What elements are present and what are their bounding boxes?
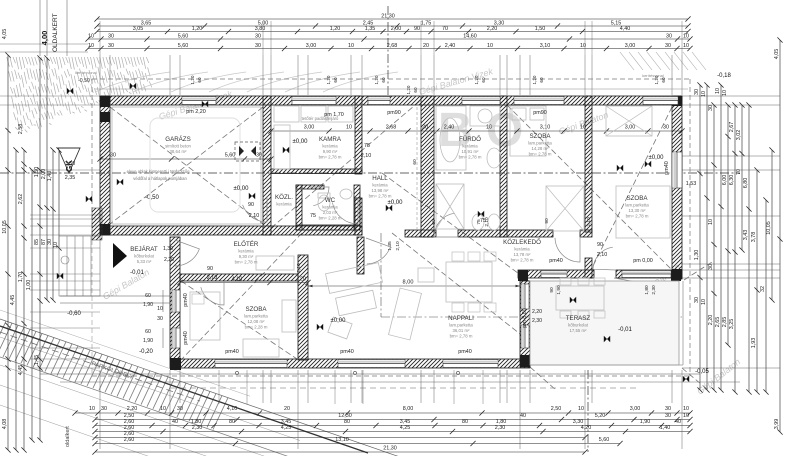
bejarat entry triangle [113,243,127,268]
level boundary axis [380,233,382,317]
svg-text:30: 30 [666,33,672,39]
svg-text:3,00: 3,00 [625,43,636,49]
svg-text:1,80: 1,80 [644,285,650,295]
svg-text:2,00: 2,00 [391,26,402,32]
right horizontal extension lines [682,95,780,97]
svg-text:2,10: 2,10 [249,213,260,219]
svg-text:10: 10 [722,90,728,96]
svg-text:4,25: 4,25 [281,425,292,431]
window terrace door 2 [521,325,529,348]
svg-text:±0,00: ±0,00 [388,200,404,206]
svg-text:10: 10 [160,406,166,412]
svg-text:4,05: 4,05 [2,29,8,40]
svg-text:10,05: 10,05 [2,220,8,234]
door szoba top [555,237,580,262]
svg-text:2,62: 2,62 [18,194,24,205]
svg-text:kerítésvonal: kerítésvonal [75,70,97,75]
roof diagonals szoba bottom-left [181,233,302,360]
svg-text:10: 10 [88,33,94,39]
svg-text:1,20: 1,20 [406,85,411,94]
svg-text:2,30: 2,30 [532,318,542,324]
svg-text:1,90: 1,90 [143,302,153,308]
door garage side [243,196,267,222]
svg-text:2,85: 2,85 [722,317,728,328]
ramp hatch at garage corner [92,208,102,240]
door szoba bl [201,281,224,305]
terrace corner diagonals [530,367,556,390]
svg-text:30: 30 [255,33,261,39]
window szoba right N [643,97,678,105]
svg-text:3,00: 3,00 [625,125,636,131]
svg-text:kőburkolat: kőburkolat [134,254,155,259]
svg-text:9,30 m²: 9,30 m² [239,254,254,259]
wall garage south / interior long [100,226,362,235]
svg-text:10: 10 [486,125,492,131]
svg-text:2,67: 2,67 [729,122,735,133]
svg-text:simított beton: simított beton [165,144,191,149]
svg-text:10: 10 [683,43,689,49]
svg-text:4,20: 4,20 [581,425,592,431]
svg-text:1,20: 1,20 [532,75,537,84]
svg-text:60: 60 [333,77,338,83]
window south nappali 2 [443,360,498,368]
svg-text:80: 80 [344,419,350,425]
svg-text:kerámia: kerámia [322,205,338,210]
svg-text:2,10: 2,10 [296,263,302,273]
wall szoba divider lower [585,258,592,278]
svg-text:lam.parketta: lam.parketta [528,141,552,146]
svg-text:ELŐTÉR: ELŐTÉR [234,241,259,248]
extension lines top [99,55,101,95]
svg-text:4,00: 4,00 [40,31,49,46]
svg-text:pm40: pm40 [458,349,472,355]
svg-text:30: 30 [708,264,714,270]
garage interior dim line [97,153,273,162]
svg-text:90: 90 [549,287,555,293]
wall corridor north w1 [405,230,436,237]
svg-text:-0,01: -0,01 [130,270,144,276]
svg-text:17,55 m²: 17,55 m² [570,328,588,333]
door bath [434,213,458,237]
wall exterior top [100,96,682,105]
svg-text:1,45: 1,45 [34,355,40,366]
svg-text:1,20: 1,20 [330,26,341,32]
svg-text:85: 85 [34,239,40,245]
svg-text:13,10: 13,10 [335,437,349,443]
svg-text:4,45: 4,45 [10,295,16,306]
svg-text:2,35: 2,35 [65,175,76,181]
porch slab lines [60,295,170,297]
svg-text:3,05: 3,05 [133,26,144,32]
svg-text:2,58: 2,58 [18,124,24,135]
svg-text:40: 40 [172,419,178,425]
svg-text:-0,50: -0,50 [78,78,90,84]
right dimension columns [694,37,783,434]
window south szoba [215,360,287,368]
svg-text:OLDALKERT: OLDALKERT [52,13,59,52]
svg-text:9,90 m²: 9,90 m² [323,149,338,154]
svg-text:kerámia: kerámia [462,144,478,149]
svg-text:oldalkert: oldalkert [65,426,71,447]
wall exterior bottom [170,359,530,368]
svg-text:bm= 2,78 m: bm= 2,78 m [319,155,342,160]
svg-text:3,00: 3,00 [304,125,315,131]
left dimension columns [2,29,62,453]
svg-text:6,00: 6,00 [722,175,728,186]
eave line above top wall [95,88,688,90]
svg-text:pm 8,00: pm 8,00 [522,308,528,327]
svg-text:5,20: 5,20 [595,413,606,419]
svg-text:30: 30 [108,43,114,49]
wall corridor north w2 [458,230,553,237]
svg-text:75: 75 [310,213,316,219]
svg-text:20: 20 [423,43,429,49]
svg-text:5,33 m²: 5,33 m² [137,259,152,264]
svg-text:bm= 2,78 m: bm= 2,78 m [626,214,649,219]
svg-text:1,20: 1,20 [190,75,195,84]
svg-text:2,20: 2,20 [708,315,714,326]
svg-text:80: 80 [462,419,468,425]
svg-text:10: 10 [683,413,689,419]
interior dim line across rooms [268,125,684,134]
wall wc east [354,185,360,230]
roof diagonal bath/szoba long [507,105,672,270]
svg-text:pm40: pm40 [340,349,354,355]
svg-text:lam.parketta: lam.parketta [449,323,473,328]
svg-text:90: 90 [544,218,550,224]
svg-text:40: 40 [520,413,526,419]
svg-text:5,60: 5,60 [599,437,610,443]
svg-text:8,00: 8,00 [403,280,414,286]
svg-text:4,40: 4,40 [620,26,631,32]
svg-text:eleve ablak kismeretti i Mgfa: eleve ablak kismeretti i Mgfa szűg [127,169,191,174]
wall szoba south east part [616,270,682,278]
svg-text:14,60: 14,60 [463,33,477,39]
svg-text:10: 10 [683,33,689,39]
garage attic hatch [235,142,260,161]
svg-text:SZOBA: SZOBA [530,133,552,140]
window east wall win [672,152,682,188]
window kamra N2 [368,97,390,105]
svg-text:2,20: 2,20 [532,309,542,315]
wall garage east [263,96,271,235]
svg-text:pm90: pm90 [533,110,547,116]
svg-text:kerámia: kerámia [372,183,388,188]
left horizontal extension lines [0,95,100,97]
wall exterior left lower [170,237,180,359]
svg-text:12,08 m²: 12,08 m² [248,319,266,324]
svg-text:kerámia: kerámia [514,247,530,252]
svg-text:1,30: 1,30 [163,246,173,252]
roof diagonal corridor long [382,173,545,293]
door wc [310,187,329,206]
wall corridor north stub [580,230,592,237]
svg-text:FÜRDŐ: FÜRDŐ [459,136,481,143]
svg-text:1,20: 1,20 [374,75,379,84]
door kamra [332,198,358,224]
wall wc north part [296,185,324,189]
terrace furniture [556,286,604,310]
furniture nappali sofa [326,263,422,340]
garage inner face line [112,107,261,224]
svg-text:60: 60 [197,77,202,83]
svg-text:60: 60 [539,77,544,83]
svg-text:60: 60 [413,87,418,93]
svg-text:30: 30 [665,43,671,49]
svg-text:lam.parketta: lam.parketta [244,314,268,319]
svg-text:pm40: pm40 [183,331,189,345]
svg-text:13,98 m²: 13,98 m² [372,188,390,193]
wall szoba divider [585,96,592,232]
svg-text:10: 10 [346,125,352,131]
extra left ticks [5,167,10,172]
svg-text:8,00: 8,00 [403,406,414,412]
svg-text:lam.parketta: lam.parketta [625,203,649,208]
wall eloter east [357,237,364,274]
svg-text:20: 20 [284,406,290,412]
svg-text:bm= 2,78 m: bm= 2,78 m [529,152,552,157]
furniture kamra shelves [274,106,299,122]
svg-text:80: 80 [229,419,235,425]
svg-text:1,20: 1,20 [192,26,203,32]
svg-text:bm= 2,78 m: bm= 2,78 m [459,155,482,160]
svg-text:KÖZLEKEDŐ: KÖZLEKEDŐ [503,239,541,246]
svg-text:3,43: 3,43 [743,230,749,241]
svg-text:3,10: 3,10 [540,43,551,49]
svg-text:90: 90 [597,242,603,248]
svg-text:60: 60 [481,77,486,83]
svg-text:B O: B O [438,104,523,157]
svg-text:±0,00: ±0,00 [331,318,347,324]
svg-text:1,20: 1,20 [326,75,331,84]
extra top extension verticals [99,21,101,55]
door terrace door [614,278,636,300]
svg-text:1,50: 1,50 [34,167,40,178]
svg-text:4,05: 4,05 [774,49,780,60]
wall kamra south [271,169,362,174]
svg-text:3,00: 3,00 [306,43,317,49]
svg-text:90: 90 [248,202,254,208]
svg-text:21,30: 21,30 [383,446,397,452]
window garage N [182,97,216,105]
svg-text:2,10: 2,10 [207,275,218,281]
section axis vertical top [387,6,389,96]
door front entry [175,240,199,266]
svg-text:pm40: pm40 [664,161,670,175]
bottom dimension rows [72,406,692,455]
wall corridor south [518,270,565,278]
roof diagonals right szoba [592,107,672,268]
svg-text:kerámia: kerámia [322,144,338,149]
survey circles below bottom wall [235,371,238,374]
furniture szoba bl [190,292,220,340]
top dimension rows [85,13,692,51]
wall bath east [500,96,507,237]
svg-text:60: 60 [431,219,437,225]
svg-text:±0,00: ±0,00 [234,186,250,192]
terrain slope hatched band bottom-left [0,319,228,430]
svg-text:GARÁZS: GARÁZS [165,136,190,143]
svg-text:30: 30 [665,406,671,412]
plumbing dashed vertical [416,107,418,229]
furniture szoba top wardrobe [546,186,584,231]
svg-text:pm40: pm40 [225,349,239,355]
svg-text:2,10: 2,10 [484,217,490,227]
door szoba right [593,247,616,270]
svg-text:1,75: 1,75 [421,20,432,26]
svg-text:10: 10 [88,43,94,49]
svg-text:30: 30 [708,105,714,111]
extension lines bottom [99,370,101,403]
watermark text [101,66,742,396]
svg-text:±0,00: ±0,00 [649,155,665,161]
svg-text:pm90: pm90 [387,110,401,116]
wall exterior left garage [100,96,110,235]
svg-text:TERASZ: TERASZ [566,315,591,322]
roof overhang dashed outline [92,78,690,80]
furniture szoba right bed [616,186,670,238]
terrain contour diagonals [0,310,400,457]
svg-text:60: 60 [145,329,151,335]
svg-text:kőburkolat: kőburkolat [568,323,589,328]
window edge extension verticals [218,370,220,404]
svg-text:4,45: 4,45 [18,365,24,376]
entry steps [59,236,100,296]
wall exterior right [672,96,682,279]
wall nappali east / terrace west [520,281,530,367]
svg-text:10: 10 [348,43,354,49]
svg-text:60: 60 [661,77,666,83]
svg-text:90: 90 [414,26,420,32]
svg-text:30: 30 [694,297,700,303]
roof diagonal nappali [392,233,529,341]
window bath N [462,97,500,105]
svg-text:60: 60 [412,159,418,165]
svg-text:1,40: 1,40 [660,425,671,431]
svg-text:pm 0,00: pm 0,00 [633,258,652,264]
window kamra N [292,97,336,105]
svg-text:2,03 m²: 2,03 m² [323,210,338,215]
svg-text:2,30: 2,30 [651,285,657,295]
szoba bl interior dim [177,277,310,286]
svg-text:bm= 2,78 m: bm= 2,78 m [511,258,534,263]
svg-text:1,30: 1,30 [694,250,700,261]
window south nappali 1 [338,360,405,368]
svg-text:1,35: 1,35 [387,241,393,251]
svg-text:5,60: 5,60 [178,33,189,39]
svg-text:GK: GK [65,160,74,172]
svg-text:2,10: 2,10 [395,241,401,251]
svg-text:13,30 m²: 13,30 m² [629,208,647,213]
svg-text:tetőtér padlásfeljáró: tetőtér padlásfeljáró [302,116,339,121]
svg-text:60: 60 [145,293,151,299]
svg-text:6,30: 6,30 [729,175,735,186]
level markers [130,83,136,89]
svg-text:30: 30 [157,316,163,322]
eloter cabinet [256,256,294,270]
svg-text:30: 30 [110,153,116,159]
svg-text:SZOBA: SZOBA [246,306,268,313]
svg-text:bm= 2,28 m: bm= 2,28 m [245,325,268,330]
furniture nappali dining [446,262,492,302]
svg-text:10: 10 [578,406,584,412]
svg-text:36,01 m²: 36,01 m² [453,328,471,333]
svg-text:bm= 2,28 m: bm= 2,28 m [319,216,342,221]
svg-text:KÖZL.: KÖZL. [275,194,293,201]
window terrace door 1 [521,284,529,309]
wall wc south [296,225,360,230]
svg-text:1,53: 1,53 [686,181,697,187]
wall bath west thick [421,96,434,237]
svg-text:30: 30 [665,413,671,419]
furniture szoba right wardrobe [606,106,652,136]
svg-text:2,68: 2,68 [386,125,397,131]
svg-text:30: 30 [101,406,107,412]
svg-text:30: 30 [663,125,669,131]
svg-text:30: 30 [255,43,261,49]
svg-text:2,30: 2,30 [495,425,506,431]
svg-text:3,99: 3,99 [774,419,780,430]
furniture szoba top bed [510,106,546,156]
svg-text:10: 10 [53,242,59,248]
utility dashed line bottom [170,387,640,389]
svg-text:1,20: 1,20 [474,75,479,84]
window szoba N [514,97,564,105]
svg-text:3,78: 3,78 [751,232,757,243]
svg-text:HALL: HALL [372,175,388,182]
svg-text:3,02: 3,02 [736,130,742,141]
svg-text:1,90: 1,90 [556,285,562,295]
svg-text:4,10: 4,10 [227,406,238,412]
svg-text:kerámia: kerámia [276,202,292,207]
terrain hatch top-right corner [620,52,706,70]
svg-text:30: 30 [177,406,183,412]
svg-text:75: 75 [476,219,482,225]
svg-text:2,40: 2,40 [445,43,456,49]
svg-text:5,60: 5,60 [178,43,189,49]
svg-text:BEJÁRAT: BEJÁRAT [130,246,158,253]
svg-text:10: 10 [715,88,721,94]
svg-text:SZOBA: SZOBA [627,195,649,202]
svg-text:4,08: 4,08 [2,419,8,430]
svg-text:2,20: 2,20 [127,406,138,412]
window west 1 [172,290,180,312]
furniture nappali armchairs [328,268,434,339]
svg-text:1,50: 1,50 [535,26,546,32]
svg-text:10: 10 [89,406,95,412]
svg-text:4,25: 4,25 [400,425,411,431]
svg-text:védőfal a hátlapok pontjában: védőfal a hátlapok pontjában [133,176,187,181]
svg-text:1,40: 1,40 [47,171,53,182]
furniture bath [436,106,466,170]
svg-text:bm= 2,78 m: bm= 2,78 m [369,194,392,199]
svg-text:kerámia: kerámia [238,249,254,254]
svg-text:40: 40 [675,419,681,425]
svg-text:2,40: 2,40 [444,125,455,131]
svg-text:3,80: 3,80 [255,26,266,32]
corner columns [100,96,110,107]
door eloter-corridor [366,238,390,264]
wall szoba south west part [565,270,594,278]
svg-text:-0,18: -0,18 [717,73,731,79]
svg-text:2,10: 2,10 [361,153,372,159]
svg-text:75: 75 [364,143,370,149]
window west 2 [172,328,180,348]
svg-text:10: 10 [157,306,163,312]
svg-text:1,35: 1,35 [365,26,376,32]
svg-text:6,80: 6,80 [743,178,749,189]
svg-text:3,25: 3,25 [729,319,735,330]
